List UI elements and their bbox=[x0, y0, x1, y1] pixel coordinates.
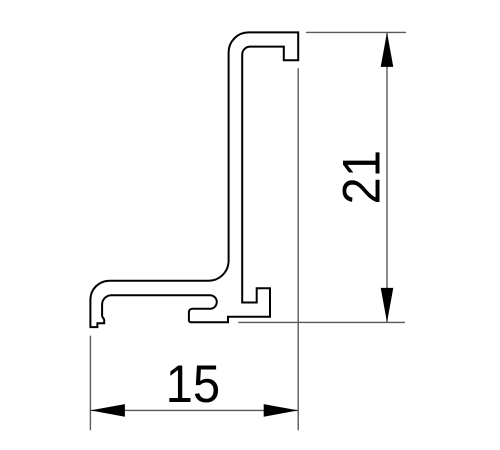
svg-text:21: 21 bbox=[332, 150, 391, 204]
profile outline bbox=[90, 32, 298, 327]
svg-text:15: 15 bbox=[166, 354, 220, 413]
arrow 21 top bbox=[381, 32, 394, 67]
extension line bottom (21) bbox=[238, 321, 405, 323]
arrow 21 bottom bbox=[381, 288, 394, 323]
extension line left (15) bbox=[89, 336, 91, 431]
dimension line 15 bbox=[90, 409, 298, 411]
arrow 15 left bbox=[90, 404, 125, 417]
extension line top (21) bbox=[306, 31, 406, 33]
extension line right (15) bbox=[297, 68, 299, 430]
arrow 15 right bbox=[264, 404, 299, 417]
dimension line 21 bbox=[386, 32, 388, 322]
